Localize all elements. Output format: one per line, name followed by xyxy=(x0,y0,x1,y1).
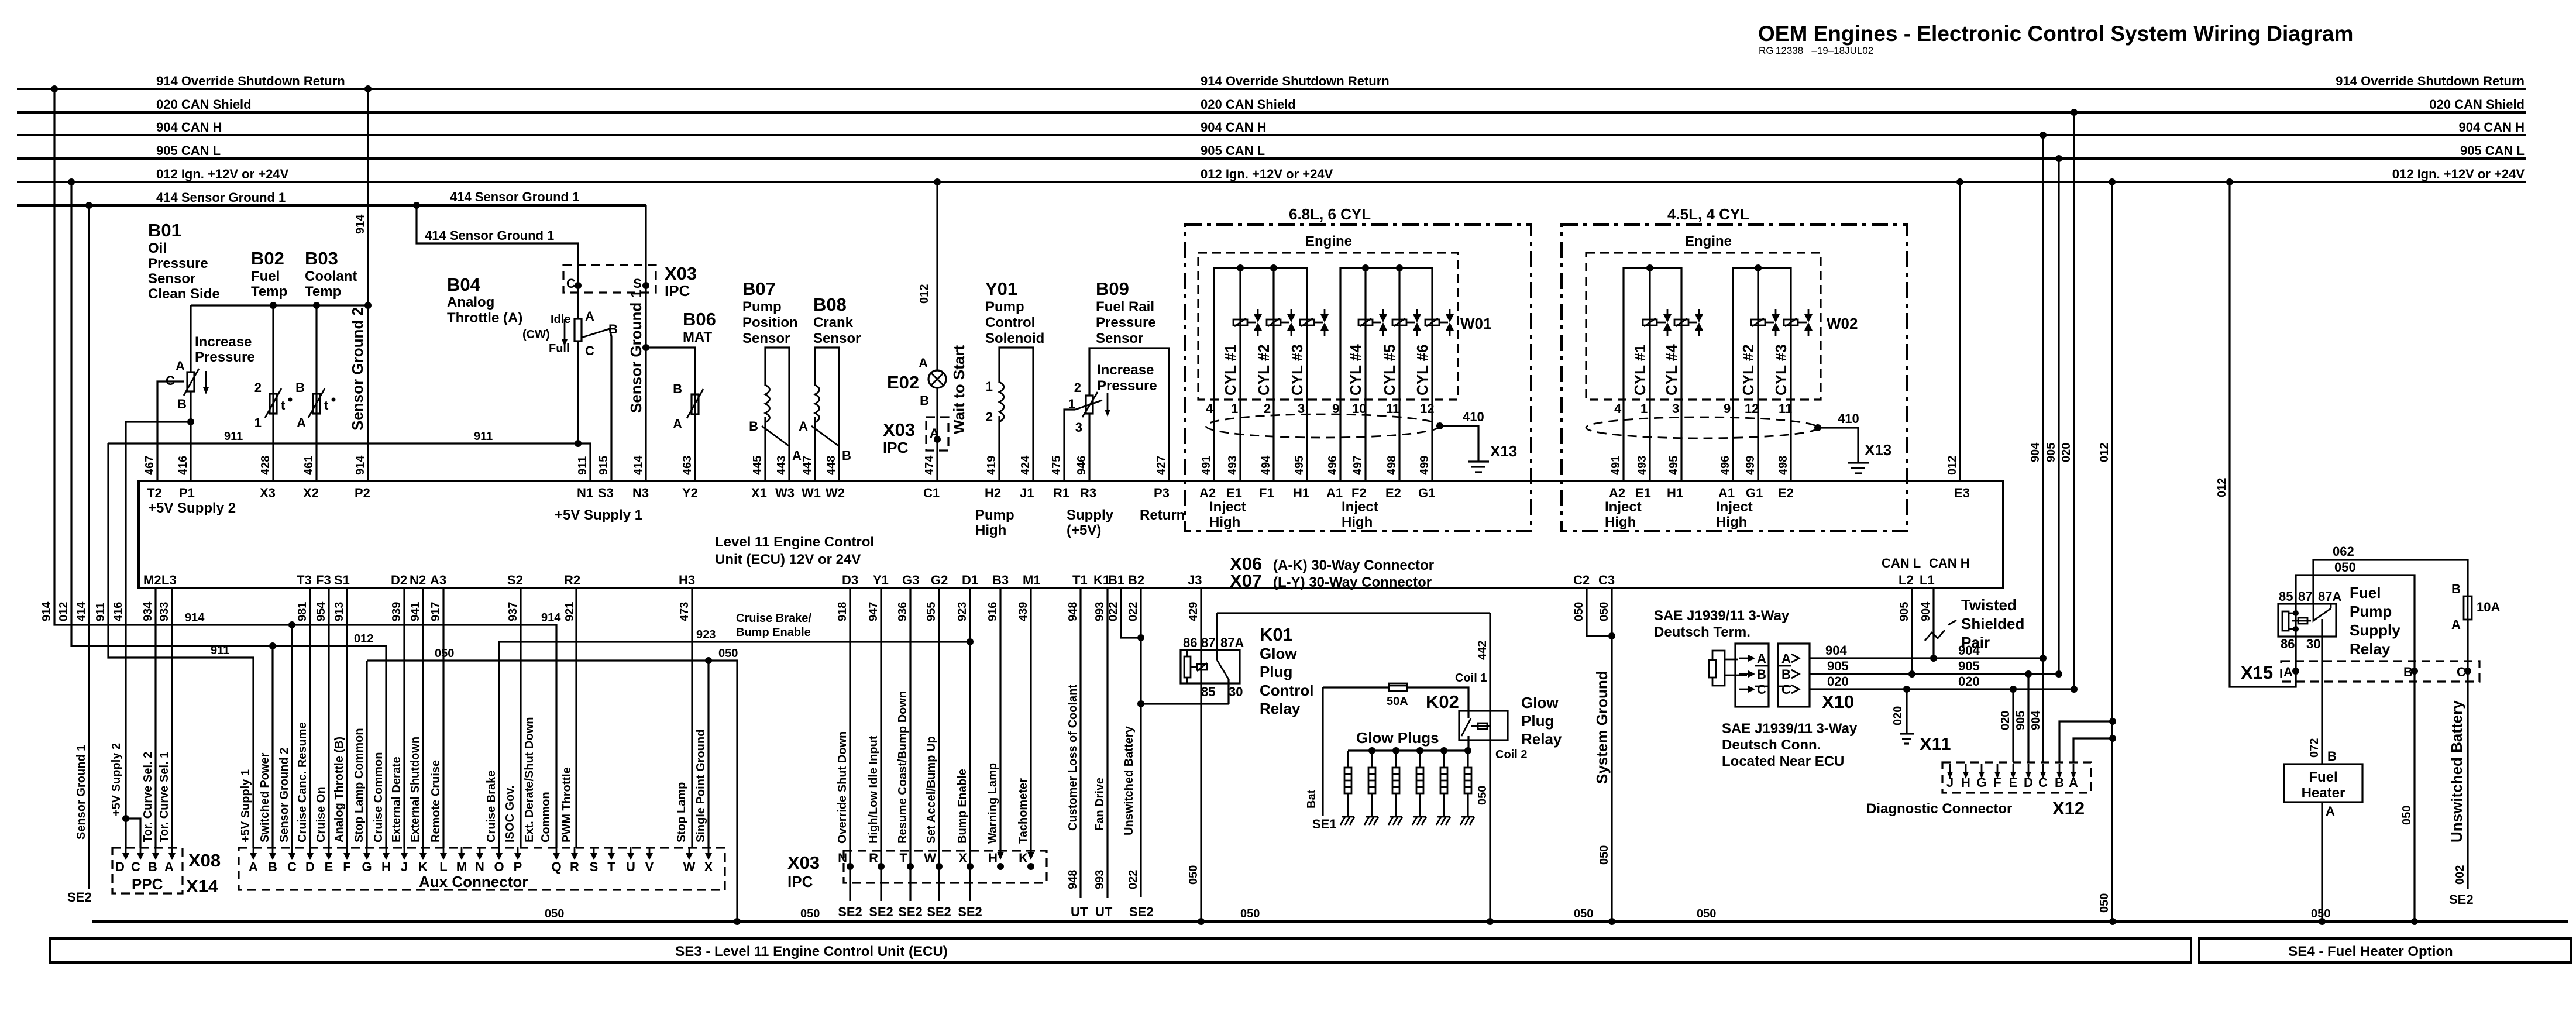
svg-text:L2: L2 xyxy=(1899,573,1914,587)
svg-text:499: 499 xyxy=(1418,456,1431,475)
svg-text:IPC: IPC xyxy=(665,282,690,300)
svg-text:Sensor: Sensor xyxy=(1096,331,1143,346)
wire 914 drop xyxy=(54,89,556,848)
svg-text:1: 1 xyxy=(1640,401,1648,416)
svg-text:Unit (ECU) 12V or 24V: Unit (ECU) 12V or 24V xyxy=(715,552,861,568)
svg-text:A2: A2 xyxy=(1609,486,1625,500)
svg-text:020: 020 xyxy=(1999,711,2012,730)
svg-text:072: 072 xyxy=(2308,738,2321,758)
svg-text:050: 050 xyxy=(2400,806,2413,825)
svg-text:PWM Throttle: PWM Throttle xyxy=(560,767,573,842)
svg-text:W: W xyxy=(924,851,936,865)
svg-text:A: A xyxy=(673,417,682,431)
svg-text:062: 062 xyxy=(2333,544,2354,559)
svg-text:Diagnostic Connector: Diagnostic Connector xyxy=(1866,801,2012,817)
svg-text:B: B xyxy=(177,397,187,411)
svg-text:493: 493 xyxy=(1226,456,1239,475)
svg-text:85: 85 xyxy=(1201,685,1215,699)
svg-text:Return: Return xyxy=(1140,507,1185,523)
svg-text:911: 911 xyxy=(211,644,229,657)
svg-text:Plug: Plug xyxy=(1260,663,1292,680)
svg-text:Stop Lamp: Stop Lamp xyxy=(675,782,688,842)
K01 coil xyxy=(1184,656,1191,678)
svg-text:050: 050 xyxy=(545,907,564,920)
svg-text:G: G xyxy=(362,859,372,874)
svg-text:Fuel: Fuel xyxy=(2309,769,2337,785)
svg-text:X1: X1 xyxy=(751,486,767,500)
svg-text:(A-K) 30-Way Connector: (A-K) 30-Way Connector xyxy=(1273,558,1434,573)
svg-text:P2: P2 xyxy=(355,486,370,500)
svg-text:Switched Power: Switched Power xyxy=(259,752,271,842)
svg-text:B: B xyxy=(673,381,682,396)
svg-text:B08: B08 xyxy=(813,294,847,315)
svg-text:B: B xyxy=(268,859,277,874)
svg-text:B: B xyxy=(1757,667,1766,682)
svg-text:RG 12338 –19–18JUL02: RG 12338 –19–18JUL02 xyxy=(1759,45,1873,56)
svg-text:905: 905 xyxy=(1827,659,1849,673)
svg-text:911: 911 xyxy=(576,456,589,475)
wire 012 drop xyxy=(71,182,386,848)
svg-text:414 Sensor Ground 1: 414 Sensor Ground 1 xyxy=(425,228,554,243)
svg-text:F: F xyxy=(1993,775,2001,790)
svg-text:442: 442 xyxy=(1476,641,1489,660)
svg-text:Inject: Inject xyxy=(1716,499,1753,515)
svg-text:050: 050 xyxy=(800,907,820,920)
svg-text:012: 012 xyxy=(354,632,373,645)
svg-text:C2: C2 xyxy=(1573,573,1590,587)
svg-text:946: 946 xyxy=(1075,456,1088,475)
svg-text:904: 904 xyxy=(2029,442,2042,462)
svg-text:U: U xyxy=(626,859,635,874)
svg-text:937: 937 xyxy=(507,602,520,621)
svg-text:H: H xyxy=(988,851,998,865)
svg-text:Fuel: Fuel xyxy=(251,269,280,284)
svg-text:X: X xyxy=(958,851,967,865)
svg-text:T: T xyxy=(607,859,615,874)
svg-text:E: E xyxy=(2009,775,2018,790)
svg-text:020 CAN Shield: 020 CAN Shield xyxy=(156,97,252,112)
svg-text:Coolant: Coolant xyxy=(305,269,357,284)
svg-text:498: 498 xyxy=(1777,456,1790,475)
svg-text:050: 050 xyxy=(2098,893,2111,913)
svg-text:913: 913 xyxy=(333,602,346,621)
svg-text:E2: E2 xyxy=(1385,486,1401,500)
svg-text:High: High xyxy=(1716,514,1747,530)
svg-text:L3: L3 xyxy=(161,573,177,587)
svg-text:SAE J1939/11 3-Way: SAE J1939/11 3-Way xyxy=(1722,721,1858,737)
svg-text:IPC: IPC xyxy=(883,439,909,456)
wire 911 C to rail xyxy=(577,351,579,443)
svg-text:SE2: SE2 xyxy=(958,905,982,919)
SE4 bar xyxy=(2199,938,2571,962)
svg-text:SE4 - Fuel Heater Option: SE4 - Fuel Heater Option xyxy=(2288,944,2453,960)
svg-text:B06: B06 xyxy=(683,309,716,329)
svg-text:414: 414 xyxy=(75,601,88,621)
svg-text:Idle: Idle xyxy=(551,313,570,326)
relay contact xyxy=(2292,620,2311,622)
svg-text:12: 12 xyxy=(1745,401,1759,416)
connector X08 PPC xyxy=(112,588,221,896)
svg-text:R3: R3 xyxy=(1080,486,1096,500)
svg-text:System Ground: System Ground xyxy=(1593,670,1611,784)
svg-text:Sensor Ground 1: Sensor Ground 1 xyxy=(627,290,645,413)
B01 switch xyxy=(190,305,191,372)
svg-text:3: 3 xyxy=(1672,401,1679,416)
svg-text:(CW): (CW) xyxy=(522,328,550,341)
svg-text:B: B xyxy=(1781,667,1791,682)
svg-text:904 CAN H: 904 CAN H xyxy=(2459,120,2525,135)
ECU Level 11 Engine Control Unit box xyxy=(139,182,2003,621)
svg-text:UT: UT xyxy=(1071,905,1088,919)
svg-text:Engine: Engine xyxy=(1305,233,1352,249)
svg-text:Sensor Ground 2: Sensor Ground 2 xyxy=(349,307,366,431)
svg-text:Pressure: Pressure xyxy=(1097,378,1157,394)
svg-text:SE2: SE2 xyxy=(838,905,862,919)
svg-text:475: 475 xyxy=(1050,456,1063,475)
svg-text:G2: G2 xyxy=(931,573,948,587)
svg-text:Relay: Relay xyxy=(1521,730,1562,748)
svg-text:Plug: Plug xyxy=(1521,712,1554,730)
svg-text:495: 495 xyxy=(1293,456,1306,475)
svg-text:416: 416 xyxy=(112,602,125,621)
svg-text:A: A xyxy=(176,359,185,373)
svg-text:495: 495 xyxy=(1667,456,1680,475)
svg-text:E1: E1 xyxy=(1635,486,1651,500)
wire sensor rail xyxy=(191,304,368,306)
svg-text:Solenoid: Solenoid xyxy=(985,331,1044,346)
svg-text:Fan Drive: Fan Drive xyxy=(1093,778,1106,831)
svg-text:A: A xyxy=(249,859,258,874)
svg-text:Cruise Brake: Cruise Brake xyxy=(485,771,498,842)
svg-text:933: 933 xyxy=(158,602,171,621)
svg-text:X03: X03 xyxy=(665,263,697,284)
svg-text:H1: H1 xyxy=(1293,486,1309,500)
wire 911 drop xyxy=(108,443,253,848)
svg-text:918: 918 xyxy=(836,602,849,621)
svg-text:914 Override Shutdown Return: 914 Override Shutdown Return xyxy=(156,74,345,88)
svg-text:012: 012 xyxy=(2098,443,2111,462)
svg-text:R: R xyxy=(869,851,878,865)
svg-text:Deutsch Term.: Deutsch Term. xyxy=(1654,624,1750,640)
svg-text:904 CAN H: 904 CAN H xyxy=(1201,120,1266,135)
svg-text:Relay: Relay xyxy=(1260,700,1301,717)
wires 948 993 Customer Loss of Coolant / Fan Drive xyxy=(1067,588,1113,919)
svg-text:J1: J1 xyxy=(1020,486,1034,500)
svg-text:905 CAN L: 905 CAN L xyxy=(156,143,221,158)
injector CYL #1 xyxy=(1643,319,1657,325)
svg-text:Control: Control xyxy=(985,315,1035,331)
svg-text:904: 904 xyxy=(2030,710,2042,730)
svg-text:981: 981 xyxy=(296,602,309,621)
svg-text:Sensor Ground 2: Sensor Ground 2 xyxy=(278,748,291,842)
B02 Fuel Temp xyxy=(251,248,293,481)
svg-text:S: S xyxy=(590,859,599,874)
svg-text:410: 410 xyxy=(1463,410,1484,424)
svg-text:SE2: SE2 xyxy=(869,905,893,919)
svg-text:050: 050 xyxy=(1573,602,1586,621)
injector CYL #5 xyxy=(1392,319,1406,325)
svg-text:914: 914 xyxy=(354,455,367,475)
svg-text:W3: W3 xyxy=(775,486,795,500)
svg-text:C: C xyxy=(1757,682,1766,697)
svg-text:X2: X2 xyxy=(303,486,319,500)
svg-text:Y1: Y1 xyxy=(873,573,889,587)
svg-text:491: 491 xyxy=(1609,456,1622,475)
svg-text:Tachometer: Tachometer xyxy=(1017,778,1030,844)
svg-text:CYL #4: CYL #4 xyxy=(1663,344,1680,396)
svg-text:E1: E1 xyxy=(1226,486,1242,500)
svg-text:1: 1 xyxy=(254,415,262,430)
svg-text:Coil 1: Coil 1 xyxy=(1455,672,1487,685)
svg-text:905 CAN L: 905 CAN L xyxy=(1201,143,1265,158)
svg-text:J: J xyxy=(401,859,408,874)
svg-text:904: 904 xyxy=(1825,643,1847,658)
svg-text:87A: 87A xyxy=(1220,635,1244,650)
wire 050 xyxy=(2296,575,2415,661)
svg-text:Bump Enable: Bump Enable xyxy=(956,769,969,844)
svg-text:Unswitched Battery: Unswitched Battery xyxy=(1123,725,1136,835)
svg-text:SE2: SE2 xyxy=(898,905,923,919)
svg-text:Glow: Glow xyxy=(1521,694,1559,711)
B01 Oil Pressure Sensor Clean Side xyxy=(126,220,372,848)
svg-text:467: 467 xyxy=(143,456,156,475)
svg-text:B: B xyxy=(2451,582,2461,596)
svg-text:Remote Cruise: Remote Cruise xyxy=(429,760,442,842)
svg-text:F: F xyxy=(343,859,350,874)
svg-text:CYL #6: CYL #6 xyxy=(1413,344,1431,396)
svg-text:OEM Engines - Electronic Contr: OEM Engines - Electronic Control System … xyxy=(1758,22,2353,46)
svg-text:B: B xyxy=(2055,775,2064,790)
B07 Pump Position Sensor xyxy=(742,278,802,481)
svg-text:012 Ign. +12V or +24V: 012 Ign. +12V or +24V xyxy=(2392,167,2525,181)
svg-text:B: B xyxy=(2327,749,2337,764)
svg-text:S2: S2 xyxy=(507,573,523,587)
svg-text:CYL #3: CYL #3 xyxy=(1772,344,1790,396)
svg-text:Cruise Common: Cruise Common xyxy=(372,752,385,842)
relay coil xyxy=(2282,611,2289,631)
svg-text:2: 2 xyxy=(1264,401,1271,416)
svg-text:T1: T1 xyxy=(1072,573,1088,587)
svg-text:050: 050 xyxy=(1574,907,1593,920)
svg-text:87: 87 xyxy=(2298,589,2312,604)
wire 904 CAN H bus xyxy=(17,134,2526,136)
svg-text:Pressure: Pressure xyxy=(148,256,208,271)
svg-text:X13: X13 xyxy=(1490,442,1517,460)
svg-text:Increase: Increase xyxy=(1097,362,1154,378)
CAN L2 L1 wires from ECU xyxy=(1911,588,1913,674)
svg-text:X: X xyxy=(704,859,713,874)
injector CYL #3 xyxy=(1300,319,1314,325)
svg-text:4.5L, 4 CYL: 4.5L, 4 CYL xyxy=(1667,205,1749,223)
svg-text:3: 3 xyxy=(1075,420,1082,435)
injector CYL #3 xyxy=(1784,319,1798,325)
svg-text:J3: J3 xyxy=(1188,573,1202,587)
svg-text:955: 955 xyxy=(925,602,938,621)
svg-text:W2: W2 xyxy=(826,486,845,500)
svg-text:A: A xyxy=(2283,665,2293,679)
svg-text:022: 022 xyxy=(1107,602,1120,621)
svg-text:50A: 50A xyxy=(1387,695,1408,708)
svg-text:t: t xyxy=(324,398,329,412)
svg-text:H2: H2 xyxy=(985,486,1001,500)
svg-text:X03: X03 xyxy=(787,852,820,873)
svg-text:X10: X10 xyxy=(1822,692,1854,712)
svg-text:A: A xyxy=(2451,617,2461,632)
svg-text:W02: W02 xyxy=(1827,315,1858,332)
svg-text:923: 923 xyxy=(696,628,716,641)
fuse 50A xyxy=(1323,686,1389,688)
svg-text:SE2: SE2 xyxy=(67,890,92,905)
svg-text:CAN H: CAN H xyxy=(1929,556,1970,570)
svg-text:443: 443 xyxy=(775,456,788,475)
svg-text:86: 86 xyxy=(2281,637,2295,651)
svg-text:Glow Plugs: Glow Plugs xyxy=(1356,729,1439,747)
svg-text:M2: M2 xyxy=(143,573,161,587)
svg-text:461: 461 xyxy=(302,456,315,475)
svg-text:Pump: Pump xyxy=(975,507,1014,523)
svg-text:H3: H3 xyxy=(679,573,695,587)
svg-text:012: 012 xyxy=(2216,478,2228,497)
glow plug xyxy=(1419,751,1421,768)
svg-text:A: A xyxy=(919,356,928,370)
svg-text:448: 448 xyxy=(825,456,838,475)
wire 416 to P1 xyxy=(190,391,191,481)
svg-text:CYL #4: CYL #4 xyxy=(1347,344,1364,396)
svg-text:936: 936 xyxy=(896,602,909,621)
svg-text:911: 911 xyxy=(474,430,493,443)
svg-text:Pressure: Pressure xyxy=(1096,315,1156,331)
svg-text:012: 012 xyxy=(57,602,70,621)
svg-text:X12: X12 xyxy=(2052,798,2085,819)
svg-text:Unswitched Battery: Unswitched Battery xyxy=(2448,700,2465,842)
glow plug xyxy=(1347,751,1349,768)
svg-text:496: 496 xyxy=(1719,456,1732,475)
svg-text:K: K xyxy=(418,859,428,874)
svg-text:1: 1 xyxy=(1231,401,1238,416)
svg-text:Warning Lamp: Warning Lamp xyxy=(986,763,999,844)
svg-text:429: 429 xyxy=(1187,602,1200,621)
svg-text:Pump: Pump xyxy=(742,299,782,315)
svg-text:X14: X14 xyxy=(186,876,219,896)
svg-text:012: 012 xyxy=(1946,456,1959,475)
svg-text:905: 905 xyxy=(1898,602,1911,621)
glow plug xyxy=(1395,751,1397,768)
svg-text:911: 911 xyxy=(224,430,243,443)
svg-text:86: 86 xyxy=(1183,635,1197,650)
svg-text:H: H xyxy=(381,859,391,874)
Bat wire xyxy=(1322,687,1323,816)
svg-text:914: 914 xyxy=(40,601,53,621)
glow plug xyxy=(1443,751,1445,768)
svg-text:499: 499 xyxy=(1744,456,1757,475)
wire 062 xyxy=(2313,560,2468,604)
svg-text:Relay: Relay xyxy=(2350,640,2391,658)
svg-text:W: W xyxy=(683,859,696,874)
junction dots on buses xyxy=(51,85,58,92)
svg-text:012: 012 xyxy=(918,284,931,304)
svg-text:E02: E02 xyxy=(887,372,919,393)
svg-text:A: A xyxy=(164,859,174,874)
connector X14 Aux Connector xyxy=(239,588,725,890)
svg-text:Y01: Y01 xyxy=(985,278,1017,299)
svg-text:012 Ign. +12V or +24V: 012 Ign. +12V or +24V xyxy=(1201,167,1333,181)
svg-text:496: 496 xyxy=(1326,456,1339,475)
svg-text:(L-Y) 30-Way Connector: (L-Y) 30-Way Connector xyxy=(1273,575,1432,590)
B08 Crank Sensor xyxy=(799,294,861,481)
svg-text:Twisted: Twisted xyxy=(1961,596,2017,614)
svg-text:Throttle (A): Throttle (A) xyxy=(447,310,522,326)
svg-text:SE2: SE2 xyxy=(927,905,951,919)
K01 contact + wire 442 xyxy=(1216,613,1218,660)
svg-text:H1: H1 xyxy=(1667,486,1683,500)
svg-text:IPC: IPC xyxy=(787,873,813,890)
svg-text:F3: F3 xyxy=(316,573,331,587)
svg-text:SE2: SE2 xyxy=(2449,892,2474,907)
svg-text:Single Point Ground: Single Point Ground xyxy=(694,730,707,842)
B09 Fuel Rail Pressure Sensor xyxy=(1064,278,1169,481)
svg-text:Sensor: Sensor xyxy=(742,331,790,346)
wire 915 to S3 xyxy=(610,329,611,481)
glow plug xyxy=(1467,751,1468,768)
svg-text:Coil 2: Coil 2 xyxy=(1495,748,1527,761)
svg-text:High: High xyxy=(1209,514,1240,530)
svg-text:022: 022 xyxy=(1127,870,1140,889)
svg-text:C1: C1 xyxy=(923,486,940,500)
svg-text:A1: A1 xyxy=(1718,486,1735,500)
B06 MAT xyxy=(642,309,716,481)
svg-text:E3: E3 xyxy=(1954,486,1970,500)
svg-text:K01: K01 xyxy=(1260,624,1293,645)
branches from 012 row xyxy=(269,642,276,649)
svg-text:Increase: Increase xyxy=(195,334,252,350)
wire 012 Ign bus xyxy=(17,181,2526,183)
injector CYL #2 xyxy=(1267,319,1281,325)
svg-text:Bump Enable: Bump Enable xyxy=(736,626,811,639)
B03 Coolant Temp xyxy=(295,248,357,481)
svg-text:S3: S3 xyxy=(598,486,614,500)
svg-text:A: A xyxy=(2326,804,2335,819)
connector X12 Diagnostic Connector xyxy=(1866,670,2116,819)
svg-text:050: 050 xyxy=(1240,907,1260,920)
svg-text:Position: Position xyxy=(742,315,798,331)
svg-text:O: O xyxy=(494,859,504,874)
svg-text:9: 9 xyxy=(1724,401,1731,416)
svg-text:B2: B2 xyxy=(1128,573,1144,587)
wire 414 Sensor Ground 1 drop to SE2 xyxy=(88,205,90,889)
wire 905 CAN L bus xyxy=(17,157,2526,160)
wire 429 from J3 xyxy=(1200,588,1202,921)
wire 414 to X03 S / Sensor Ground 1 xyxy=(627,205,646,481)
svg-text:993: 993 xyxy=(1093,870,1106,889)
svg-text:904 CAN H: 904 CAN H xyxy=(156,120,222,135)
svg-text:External Derate: External Derate xyxy=(390,756,403,842)
svg-text:473: 473 xyxy=(678,602,691,621)
svg-text:X08: X08 xyxy=(188,850,221,871)
svg-text:B07: B07 xyxy=(742,278,776,299)
svg-text:P1: P1 xyxy=(179,486,195,500)
svg-text:914 Override Shutdown Return: 914 Override Shutdown Return xyxy=(2336,74,2525,88)
injector CYL #4 xyxy=(1674,319,1688,325)
svg-text:D: D xyxy=(2024,775,2033,790)
svg-text:Pair: Pair xyxy=(1961,634,1990,651)
svg-text:Wait to Start: Wait to Start xyxy=(950,345,968,434)
svg-text:A: A xyxy=(1781,651,1791,666)
svg-text:Stop Lamp Common: Stop Lamp Common xyxy=(353,728,366,842)
svg-text:Cruise Brake/: Cruise Brake/ xyxy=(736,612,811,625)
svg-text:Heater: Heater xyxy=(2302,785,2345,801)
svg-text:1: 1 xyxy=(986,379,993,394)
svg-text:D1: D1 xyxy=(962,573,978,587)
